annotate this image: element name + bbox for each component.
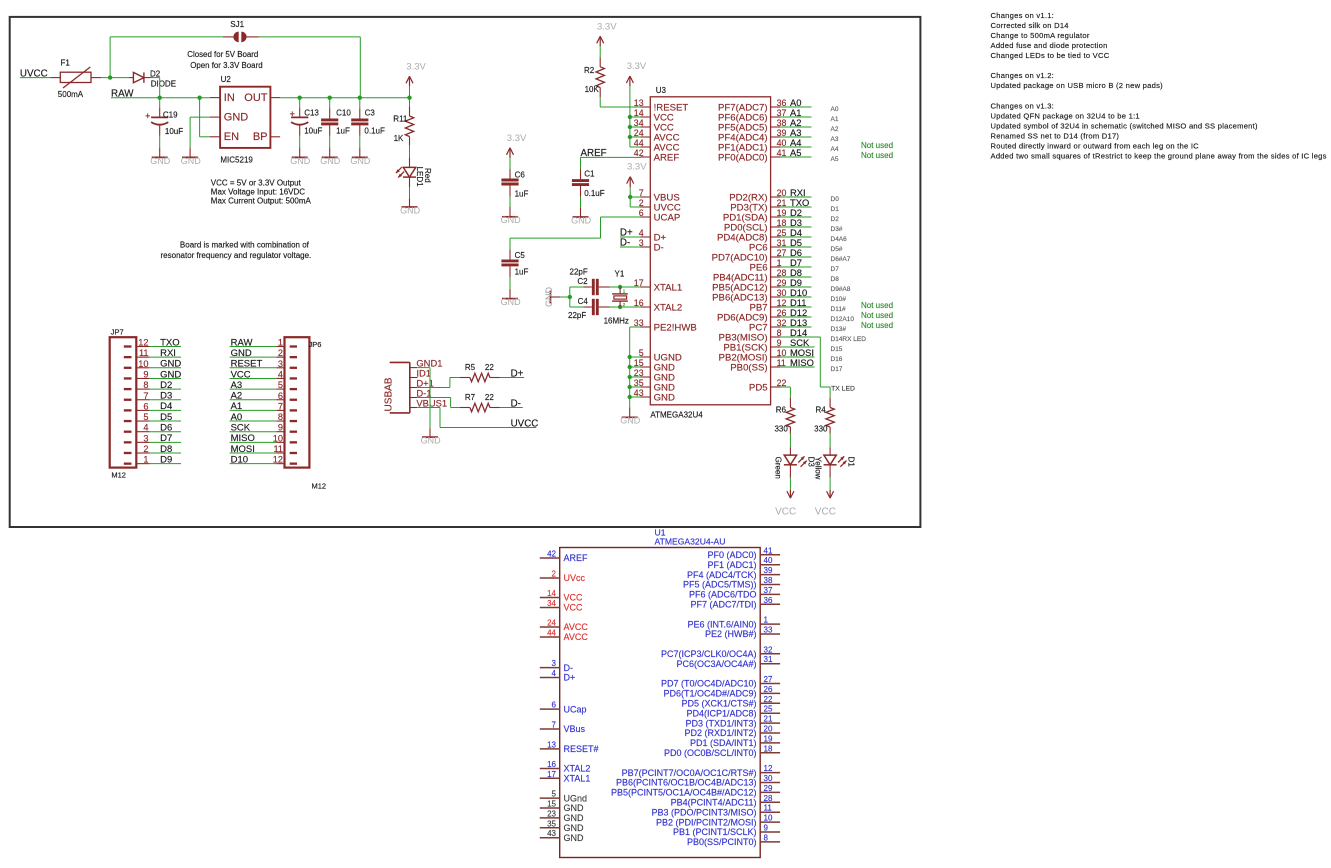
svg-text:PB5(PCINT5/OC1A/OC4B#/ADC12): PB5(PCINT5/OC1A/OC4B#/ADC12) [611,788,757,798]
U1 pin 21 PD3 (TXD1/INT3) [685,715,780,729]
JP7 pin 9 GND [124,369,150,379]
net label D10 [780,287,811,298]
svg-text:PF7 (ADC7/TDI): PF7 (ADC7/TDI) [690,600,756,610]
svg-text:1: 1 [623,288,626,293]
wire [299,136,301,148]
svg-text:GND: GND [421,436,442,446]
svg-text:GND: GND [564,813,585,823]
ground [509,289,511,299]
svg-text:11: 11 [764,804,773,813]
net label A1 [780,107,811,118]
wire PE2 to GND [630,326,641,328]
svg-text:PD0 (OC0B/SCL/INT0): PD0 (OC0B/SCL/INT0) [664,748,757,758]
svg-text:330: 330 [814,424,828,433]
svg-text:PB6(PCINT6/OC1B/OC4B/ADC13): PB6(PCINT6/OC1B/OC4B/ADC13) [616,778,757,788]
svg-text:C13: C13 [304,109,319,118]
wire to !RESET [599,97,601,107]
junction [298,96,302,100]
svg-text:PF4 (ADC4/TCK): PF4 (ADC4/TCK) [687,570,757,580]
ground [299,148,301,158]
svg-text:21: 21 [764,715,773,724]
svg-text:9: 9 [764,824,769,833]
svg-text:5: 5 [552,790,557,799]
USB pin D+1 [410,377,434,388]
svg-text:D16: D16 [831,356,843,363]
U3 pin 26 PD6(ADC9) [717,308,787,323]
wire TX LED net [829,387,831,398]
JP7 pin 3 D7 [124,433,150,443]
svg-text:A5: A5 [790,147,801,158]
junction [628,115,632,119]
U1 pin 10 PB2 (PDI/PCINT2/MOSI) [656,814,780,828]
JP6 pin 11 MOSI [273,444,297,454]
wire [151,77,160,79]
svg-text:GND: GND [160,369,181,380]
svg-text:1uF: 1uF [515,190,529,199]
svg-text:16: 16 [547,760,556,769]
svg-text:PC7(ICP3/CLK0/OC4A): PC7(ICP3/CLK0/OC4A) [661,649,757,659]
U3 pin 33 PE2!HWB [634,318,697,333]
junction [358,96,362,100]
schematic sheet frame [10,17,921,527]
svg-text:6: 6 [143,401,148,411]
wire [259,36,360,38]
U2 pin IN [210,92,235,104]
U1 pin 39 PF4 (ADC4/TCK) [687,566,780,580]
svg-text:MISO: MISO [231,433,255,444]
svg-text:GND: GND [231,348,252,359]
svg-text:PD2 (RXD1/INT2): PD2 (RXD1/INT2) [684,728,756,738]
U1 pin 31 PC6(OC3A/OC4A#) [676,655,780,669]
svg-text:UGnd: UGnd [564,793,588,803]
U2 pin EN [210,131,239,143]
U1 pin 41 PF0 (ADC0) [707,546,780,560]
svg-text:A2: A2 [231,391,243,402]
U1 pin 14 VCC [540,589,583,603]
svg-text:TXO: TXO [160,337,180,348]
svg-text:Updated QFN package on 32U4 to: Updated QFN package on 32U4 to be 1:1 [991,111,1140,120]
svg-text:PD5: PD5 [749,382,768,393]
svg-text:C6: C6 [515,171,526,180]
svg-text:23: 23 [547,809,556,818]
svg-text:EN: EN [224,131,239,143]
svg-text:29: 29 [764,784,773,793]
svg-text:LED1: LED1 [415,167,424,188]
net label A3 [780,127,811,138]
U3 pin 21 PD3(TX) [730,198,786,213]
svg-text:3.3V: 3.3V [507,133,527,144]
svg-text:GND: GND [564,833,585,843]
U3 pin 32 PC7 [749,318,787,333]
svg-text:44: 44 [547,629,556,638]
svg-text:35: 35 [547,819,556,828]
junction [628,375,632,379]
svg-text:Renamed SS net to D14 (from D1: Renamed SS net to D14 (from D17) [991,131,1120,140]
U3 pin 27 PD7(ADC10) [712,248,787,263]
wire [630,376,641,378]
svg-text:3.3V: 3.3V [627,162,647,173]
svg-text:Not used: Not used [861,321,893,330]
diode D2 [129,69,176,88]
svg-text:Max Voltage Input: 16VDC: Max Voltage Input: 16VDC [211,188,305,197]
svg-text:PF6 (ADC6/TDO: PF6 (ADC6/TDO [689,590,757,600]
svg-text:AVCC: AVCC [564,622,589,632]
junction [628,365,632,369]
U3 pin 40 PF1(ADC1) [718,138,786,153]
wire [409,146,411,158]
JP7 pin 7 D3 [124,391,150,401]
U3 pin 41 PF0(ADC0) [718,148,786,163]
svg-text:GND: GND [400,205,421,215]
wire GND1 [418,367,430,369]
net label D11 [780,297,811,308]
3.3V supply [627,162,648,187]
JP6 pin 10 MISO [273,433,297,443]
svg-text:A5: A5 [831,156,839,163]
net label D5 [780,237,811,248]
svg-text:D4A6: D4A6 [831,236,848,243]
svg-text:Green: Green [774,457,783,479]
svg-text:R6: R6 [776,406,787,415]
wire [560,296,570,298]
wire XTAL2 [620,306,640,308]
IC U1 ATMEGA32U4-AU body [560,528,761,858]
U1 pin 37 PF6 (ADC6/TDO [689,586,780,600]
wire U2 GND [190,116,210,118]
net label A3 [230,380,277,391]
svg-text:10uF: 10uF [165,127,183,136]
svg-text:ATMEGA32U4-AU: ATMEGA32U4-AU [655,536,726,546]
junction [197,96,201,100]
svg-text:10: 10 [764,814,773,823]
U3 pin 29 PB5(ADC12) [712,278,786,293]
net label VCC [230,369,277,380]
U1 pin 22 PD5 (XCK1/CTS#) [681,695,780,709]
svg-text:27: 27 [764,675,773,684]
ground [329,148,331,158]
U1 pin 2 UVcc [540,570,586,584]
svg-text:AVCC: AVCC [564,632,589,642]
wire to solder jumper [109,37,111,78]
U1 pin 36 PF7 (ADC7/TDI) [690,596,780,610]
svg-text:U3: U3 [656,86,667,95]
U3 pin 10 PB2(MOSI) [719,348,787,363]
ground (rotated) [544,287,561,308]
U3 pin 5 UGND [639,348,682,363]
svg-text:500mA: 500mA [58,90,84,99]
svg-text:2: 2 [623,302,626,307]
svg-text:D+: D+ [564,673,576,683]
svg-text:3: 3 [552,659,557,668]
svg-text:R11: R11 [393,115,408,124]
3.3V supply [406,61,427,86]
svg-text:24: 24 [547,619,556,628]
U1 pin 18 PD0 (OC0B/SCL/INT0) [664,744,780,758]
wire [629,86,631,147]
svg-text:A3: A3 [231,380,243,391]
wire [359,136,361,148]
net label D14 [780,327,820,338]
U1 pin 13 RESET# [540,740,599,754]
USB pin ID1 [410,367,431,378]
U3 pin 1 PE6 [749,258,781,273]
svg-text:VBus: VBus [564,724,586,734]
svg-text:33: 33 [764,626,773,635]
svg-text:DIODE: DIODE [151,80,176,89]
svg-text:17: 17 [547,770,556,779]
net label D4 [780,227,811,238]
wire RAW [111,97,210,99]
svg-text:D-: D- [511,398,521,409]
net label A2 [230,391,277,402]
svg-text:D+: D+ [511,368,524,379]
svg-text:Max Current Output: 500mA: Max Current Output: 500mA [211,197,312,206]
wire D+1 [418,387,450,389]
svg-text:38: 38 [764,576,773,585]
wire [630,386,641,388]
ground [159,148,161,158]
svg-text:PF1 (ADC1): PF1 (ADC1) [707,560,756,570]
U3 pin 35 GND [634,378,675,393]
svg-text:VCC = 5V or 3.3V Output: VCC = 5V or 3.3V Output [211,179,302,188]
U3 pin 25 PD4(ADC8) [717,228,787,243]
U1 pin 9 PB1 (PCINT1/SCLK) [673,824,780,838]
junction [628,195,632,199]
capacitor C1 [572,169,605,198]
JP6 pin 6 A2 [276,391,297,401]
resistor R5 22 [460,363,500,382]
U1 pin 40 PF1 (ADC1) [707,556,780,570]
svg-text:GND: GND [290,156,311,166]
U1 pin 20 PD2 (RXD1/INT2) [684,725,780,739]
net label GND [150,359,182,370]
wire D14 net [819,337,821,387]
svg-text:AREF: AREF [654,152,680,163]
svg-text:15: 15 [547,800,556,809]
svg-text:5: 5 [278,380,283,390]
JP6 pin 3 RESET [276,359,297,369]
JP7 pin 10 GND [124,359,150,369]
net label TXO [780,197,811,208]
U3 pin 3 D- [639,238,664,253]
svg-text:D9#A8: D9#A8 [831,286,851,293]
svg-text:D2: D2 [150,69,161,78]
U3 pin 37 PF6(ADC6) [718,108,786,123]
junction [628,135,632,139]
JP7 pin 1 D9 [124,455,150,465]
net label D9 [780,277,811,288]
U1 pin 27 PD7 (T0/OC4D/ADC10) [661,675,780,689]
svg-text:GND: GND [350,156,371,166]
svg-text:D12A10: D12A10 [831,316,855,323]
svg-text:UCAP: UCAP [654,212,681,223]
svg-text:U2: U2 [221,75,232,84]
svg-text:D6#A7: D6#A7 [831,256,851,263]
net label RXI [150,348,181,359]
svg-text:C19: C19 [163,111,178,120]
U3 pin 9 PB1(SCK) [723,338,781,353]
junction [568,295,572,299]
U3 pin 6 UCAP [639,208,681,223]
U1 pin 30 PB6(PCINT6/OC1B/OC4B/ADC13) [616,774,780,788]
net label D8 [150,444,181,455]
svg-text:6: 6 [278,391,283,401]
svg-text:18: 18 [764,744,773,753]
IC U3 body [650,86,770,419]
svg-text:RAW: RAW [231,337,253,348]
svg-text:PB3 (PDO/PCINT3/MISO): PB3 (PDO/PCINT3/MISO) [651,807,756,817]
U1 pin 38 PF5 (ADC5/TMS)) [683,576,780,590]
svg-text:4: 4 [552,669,557,678]
svg-text:22: 22 [485,363,494,372]
U1 pin 4 D+ [540,669,575,683]
U3 pin 39 PF4(ADC4) [718,128,786,143]
JP7 pin 11 RXI [124,348,150,358]
wire [630,366,641,368]
U1 pin 24 AVCC [540,619,589,633]
wire [509,277,511,289]
svg-text:C10: C10 [336,109,351,118]
U3 pin 42 AREF [634,148,680,163]
U3 pin 36 PF7(ADC7) [718,98,786,113]
svg-text:A2: A2 [831,126,839,133]
svg-text:GND: GND [181,156,202,166]
svg-text:D0: D0 [831,196,840,203]
3.3V supply [507,133,528,158]
svg-text:D7: D7 [160,433,172,444]
LED D3 Green [774,447,816,478]
net label UVCC [440,418,538,429]
svg-text:3.3V: 3.3V [597,21,617,32]
svg-text:+: + [145,111,150,121]
JP6 pin 2 GND [276,348,297,358]
svg-text:Not used: Not used [861,301,893,310]
net label D- [620,237,641,248]
capacitor C13 [290,98,323,136]
net label D9 [150,454,181,465]
svg-text:A0: A0 [231,412,243,423]
svg-text:GND: GND [224,111,249,123]
JP6 pin 4 VCC [276,369,297,379]
svg-text:22pF: 22pF [568,311,586,320]
net label D2 [150,380,181,391]
svg-text:GND: GND [564,803,585,813]
svg-text:0.1uF: 0.1uF [364,127,385,136]
svg-text:D1: D1 [831,206,840,213]
svg-text:C1: C1 [584,170,595,179]
U1 pin 11 PB3 (PDO/PCINT3/MISO) [651,804,780,818]
svg-text:3.3V: 3.3V [406,61,426,72]
svg-text:PE6 (INT.6/AIN0): PE6 (INT.6/AIN0) [687,619,756,629]
JP7 pin 8 D2 [124,380,150,390]
svg-text:D5: D5 [160,412,172,423]
net label A2 [780,117,811,128]
U3 pin 34 VCC [634,118,674,133]
svg-text:VCC: VCC [231,369,251,380]
svg-text:Yellow: Yellow [813,457,822,480]
net label D8 [780,267,811,278]
svg-text:D8: D8 [160,444,172,455]
svg-text:25: 25 [764,705,773,714]
svg-text:Open for 3.3V Board: Open for 3.3V Board [190,61,262,70]
svg-text:M12: M12 [111,471,126,480]
svg-text:GND: GND [150,156,171,166]
svg-text:PD4(ICP1/ADC8): PD4(ICP1/ADC8) [686,708,756,718]
svg-text:40: 40 [764,556,773,565]
svg-text:7: 7 [552,721,557,730]
wire [409,187,411,198]
svg-text:7: 7 [143,391,148,401]
JP6 pin 8 A0 [276,412,297,422]
wire [629,397,631,407]
svg-text:GND: GND [501,215,522,225]
svg-text:MISO: MISO [790,357,814,368]
wire [599,46,601,58]
svg-text:22: 22 [485,393,494,402]
svg-text:Updated package on USB micro B: Updated package on USB micro B (2 new pa… [991,81,1164,90]
svg-text:D13#: D13# [831,326,847,333]
svg-text:PD1 (SDA/INT1): PD1 (SDA/INT1) [690,738,757,748]
U3 pin 16 XTAL2 [634,298,682,313]
svg-text:PB4(PCINT4/ADC11): PB4(PCINT4/ADC11) [671,798,757,808]
net label D10 [230,454,277,465]
U3 pin 44 AVCC [634,138,680,153]
svg-text:14: 14 [547,589,556,598]
wire [630,126,641,128]
svg-text:41: 41 [764,546,773,555]
U1 pin 5 UGnd [540,790,587,804]
svg-text:Corrected silk on D14: Corrected silk on D14 [991,21,1069,30]
svg-text:16MHz: 16MHz [604,317,629,326]
svg-text:Red: Red [423,168,432,183]
svg-text:RESET#: RESET# [564,744,599,754]
ground [580,207,582,217]
svg-text:Changed LEDs to be tied to VCC: Changed LEDs to be tied to VCC [991,51,1110,60]
U3 pin 28 PB4(ADC11) [713,268,787,283]
svg-text:RESET: RESET [231,359,263,370]
connector JP6 body [285,337,327,490]
net label A1 [230,401,277,412]
U1 pin 8 PB0(SS/PCINT0) [687,833,780,847]
svg-text:GND: GND [544,287,554,308]
svg-text:1uF: 1uF [515,267,529,276]
resistor R7 22 [460,393,500,412]
net label D13 [780,317,811,328]
svg-text:PD3 (TXD1/INT3): PD3 (TXD1/INT3) [685,718,756,728]
U1 pin 44 AVCC [540,629,589,643]
wire PD5 [780,386,790,388]
svg-text:11: 11 [139,348,149,358]
LED1 Red [396,158,432,188]
svg-text:PB0(SS/PCINT0): PB0(SS/PCINT0) [687,837,757,847]
connector JP7 body [110,328,137,480]
USB pin D-1 [410,387,432,398]
svg-text:Changes on v1.3:: Changes on v1.3: [991,101,1055,110]
svg-text:UVcc: UVcc [564,573,586,583]
svg-text:PD7 (T0/OC4D/ADC10): PD7 (T0/OC4D/ADC10) [661,679,757,689]
svg-text:32: 32 [764,645,773,654]
net label GND [150,369,182,380]
svg-text:Added fuse and diode protectio: Added fuse and diode protection [991,41,1108,50]
U3 pin 13 !RESET [634,98,689,113]
svg-text:42: 42 [547,550,556,559]
U3 pin 15 GND [634,358,675,373]
wire [569,287,571,307]
U1 pin 28 PB4(PCINT4/ADC11) [671,794,780,808]
svg-text:Not used: Not used [861,141,893,150]
junction [628,395,632,399]
USB pin GND1 [410,357,443,368]
